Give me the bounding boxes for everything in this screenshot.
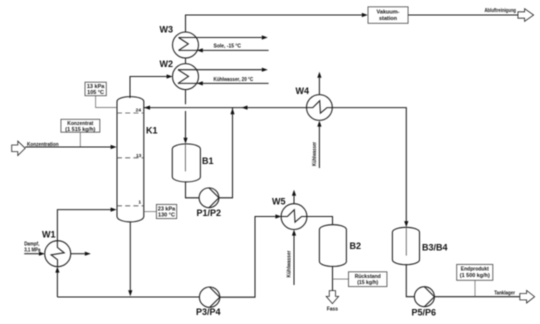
block arrow Konzentration (feed inlet) (12, 141, 26, 155)
wire: W4 coolant in bottom (318, 127, 320, 169)
svg-text:W3: W3 (160, 25, 174, 35)
arrowhead reflux into column (144, 106, 150, 110)
wire: bottom pipe W1 to P3/P4 (57, 296, 199, 298)
arrowhead W1 out (85, 252, 91, 256)
box 13 kPa / 105 °C (85, 82, 106, 96)
vessel B2 (319, 225, 346, 267)
tray 13 (dashed) (117, 157, 144, 159)
svg-text:Fass: Fass (327, 306, 338, 312)
svg-text:13: 13 (136, 153, 142, 159)
wire: B2 outlet down (332, 266, 334, 290)
svg-text:105 °C: 105 °C (87, 90, 104, 96)
svg-text:Endprodukt: Endprodukt (461, 267, 489, 273)
svg-text:K1: K1 (146, 126, 158, 136)
wire: W3 brine in (bottom) (179, 49, 269, 51)
wire: B1 outlet to pump P1/P2 (186, 182, 200, 198)
svg-text:P1/P2: P1/P2 (197, 208, 222, 218)
svg-text:13 kPa: 13 kPa (87, 84, 105, 90)
heat exchanger W3 (173, 32, 199, 58)
arrowhead into B1 (183, 138, 187, 144)
svg-text:1: 1 (138, 199, 141, 205)
wire: W1 vapor return to column (57, 210, 110, 241)
pump P5/P6 (414, 287, 434, 307)
svg-text:(15 kg/h): (15 kg/h) (357, 280, 378, 286)
heat exchanger W4 (307, 95, 333, 121)
arrowhead into vacuum station (362, 13, 368, 17)
box Rückstand (15 kg/h) (349, 272, 387, 287)
arrowhead feed into column (111, 145, 117, 149)
vessel B1 (172, 144, 200, 182)
arrowhead into W1 bottom (55, 267, 59, 273)
svg-text:(1 500 kg/h): (1 500 kg/h) (460, 273, 490, 279)
arrowhead brine out (262, 35, 268, 39)
svg-text:Vakuum-: Vakuum- (377, 10, 400, 16)
pump P1/P2 (199, 188, 219, 208)
box Vakuum-station (368, 7, 408, 24)
vessel B3/B4 (392, 227, 419, 264)
wire: vacuum station to Abluftreinigung (408, 14, 518, 16)
svg-text:(1 515 kg/h): (1 515 kg/h) (65, 127, 95, 133)
box Endprodukt (1 500 kg/h) (457, 264, 493, 280)
svg-text:Kühlwasser: Kühlwasser (287, 250, 293, 278)
tray 24 (dashed) (117, 112, 144, 114)
wire: W2-W3 connector (185, 58, 187, 64)
arrowhead riser up (230, 108, 234, 114)
wire: main distillate line W4 to column (144, 107, 307, 109)
svg-text:Kühlwasser: Kühlwasser (312, 141, 318, 166)
wire: Endprodukt connector (474, 280, 476, 296)
wire: column bottoms down (129, 222, 131, 291)
wire: W1 condensate out (71, 253, 85, 255)
wire: bottoms up into W1 (56, 273, 58, 298)
svg-text:B3/B4: B3/B4 (422, 243, 448, 253)
wire: W5 to vessel B2 (307, 217, 333, 225)
svg-text:B2: B2 (350, 241, 362, 251)
arrowhead cooling water into W2 (197, 81, 203, 85)
svg-text:Kühlwasser, 20 °C: Kühlwasser, 20 °C (214, 77, 254, 83)
wire: B3/B4 outlet to P5/P6 (406, 265, 414, 297)
svg-text:W1: W1 (42, 230, 56, 240)
box 23 kPa / 130 °C (156, 204, 176, 218)
svg-text:3,1 MPa: 3,1 MPa (24, 247, 41, 253)
wire: 13 kPa box connector to column (96, 96, 117, 108)
arrowhead bottoms down (128, 290, 132, 296)
svg-text:Abluftreinigung: Abluftreinigung (485, 8, 517, 14)
wire: W4 coolant out top (318, 78, 320, 95)
svg-text:W4: W4 (296, 86, 310, 96)
heat exchanger W5 (281, 204, 307, 230)
svg-text:W5: W5 (272, 197, 286, 207)
wire: W2 cooling water out (top) (178, 69, 262, 71)
wire: W2 cooling water in (bottom) (178, 82, 269, 84)
wire: P3/P4 up to W5 (220, 217, 276, 298)
svg-text:23 kPa: 23 kPa (158, 206, 176, 212)
svg-text:24: 24 (136, 108, 142, 114)
box Konzentrat (1 515 kg/h) (61, 119, 100, 133)
wire: W3 brine out (top) (179, 37, 262, 39)
wire: steam into W1 (24, 253, 39, 255)
wire: feed line into column (25, 146, 110, 148)
arrowhead cooling water out (262, 68, 268, 72)
wire: riser from P1/P2 to distillate line (219, 108, 233, 198)
wire: W5 coolant in bottom (293, 236, 295, 285)
svg-text:station: station (379, 16, 398, 22)
svg-text:Konzentrat: Konzentrat (67, 121, 93, 127)
svg-text:130 °C: 130 °C (158, 213, 175, 219)
arrowhead vapor into column (111, 208, 117, 212)
arrowhead into W5 (275, 214, 281, 218)
wire: W4 to vessel B3/B4 (332, 108, 406, 222)
block arrow Tanklager (520, 290, 535, 303)
pump P3/P4 (199, 287, 219, 307)
wire: W5 coolant out top (293, 196, 295, 204)
wire: connector to Rückstand box (333, 278, 349, 280)
svg-text:Rückstand: Rückstand (355, 274, 381, 280)
svg-text:P3/P4: P3/P4 (196, 307, 221, 317)
wire: 23 kPa box connector (144, 211, 157, 213)
arrowhead W4 coolant out (317, 72, 321, 78)
wire: Konzentrat box connector (79, 132, 81, 147)
arrowhead into B3/B4 (404, 221, 408, 227)
arrowhead into W2 (167, 74, 173, 78)
arrowhead W5 coolant in (292, 230, 296, 236)
svg-text:W2: W2 (160, 59, 174, 69)
arrowhead steam into W1 (39, 252, 45, 256)
arrowhead brine into W3 (197, 48, 203, 52)
tray 1 (dashed) (117, 205, 144, 207)
arrowhead W5 coolant out (292, 190, 296, 196)
wire: W2 bottom to vessel B1 (185, 90, 187, 138)
wire: W3 top to vacuum station (186, 15, 362, 32)
heat exchanger W2 (173, 64, 199, 90)
arrowhead W4 coolant in (317, 121, 321, 127)
column K1 shell (117, 97, 144, 222)
wire: column top to condenser W2 (130, 77, 167, 99)
svg-text:B1: B1 (202, 156, 214, 166)
block arrow Fass (down) (326, 291, 338, 304)
svg-text:Sole, -15 °C: Sole, -15 °C (214, 44, 242, 50)
svg-text:P5/P6: P5/P6 (412, 308, 437, 318)
block arrow Abluftreinigung (518, 9, 534, 22)
heat exchanger W1 (45, 241, 71, 267)
svg-text:Tanklager: Tanklager (494, 291, 515, 297)
arrowhead mid-line flow left (242, 106, 248, 110)
wire: P5/P6 to Tanklager (434, 296, 520, 298)
